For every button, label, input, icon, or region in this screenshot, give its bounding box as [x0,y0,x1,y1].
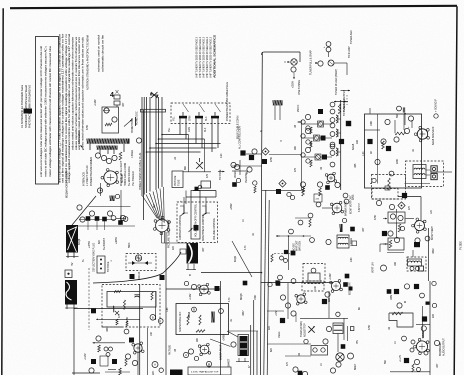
svg-text:22K: 22K [268,326,271,330]
notes column B [71,36,85,150]
sound wires [365,108,413,133]
snd if tube V12 [198,283,220,296]
svg-text:schematic circuit on Ite: schematic circuit on Ite [101,34,105,72]
bm bottom callouts [293,367,308,375]
yoke area parts [84,308,125,373]
audio out label [434,338,445,356]
plug P2 blade [195,112,203,122]
svg-text:meter to with tube DC voltages: meter to with tube DC voltages ground wi… [44,45,48,177]
svg-text:TV 2820: TV 2820 [460,241,463,250]
IF bottom tube [325,172,337,184]
svg-text:56K: 56K [384,360,387,364]
vert black sq2 [382,231,387,236]
bottom label 6dq6 [239,281,247,300]
controls dashed box [177,202,218,243]
wire plug drops [180,122,218,152]
mc trap box [188,367,231,375]
wire diag snd [210,339,231,347]
svg-text:6AW8A PIX IF: 6AW8A PIX IF [219,344,223,360]
sync callout e [289,229,294,234]
focus labels [130,271,165,280]
svg-text:ADDITIONAL SCHEMATICS: ADDITIONAL SCHEMATICS [213,35,217,78]
IF bottom callouts [300,182,340,188]
rectifier tube V13 [97,168,118,193]
controls top link [184,185,216,204]
vert callouts2 [388,226,420,243]
svg-text:47K: 47K [118,314,121,318]
svg-text:39K: 39K [294,146,297,150]
wire dotted agc [274,250,295,256]
phase det coil [340,218,347,232]
svg-text:6CM7 VERT: 6CM7 VERT [430,226,434,240]
svg-text:4: 4 [110,92,114,99]
IF stage 2 label [321,136,326,141]
svg-text:YEL: YEL [173,116,176,121]
br keystone2 [0,0,1,1]
cable junction cluster [150,92,159,98]
cable tie band [141,109,166,112]
svg-text:BAR GEN: BAR GEN [299,241,302,251]
focus spinner [135,255,141,261]
svg-text:6DQ6: 6DQ6 [78,238,81,245]
svg-text:6AU8 SOUND IF: 6AU8 SOUND IF [431,126,435,145]
svg-text:voltage applied maintained con: voltage applied maintained controls volt… [67,33,71,183]
svg-text:volt vacuum voltages tube ohm: volt vacuum voltages tube ohm measured s… [39,46,43,177]
svg-text:10K: 10K [310,142,313,146]
bottom row callouts [275,275,296,285]
sound tube label [431,98,438,145]
svg-text:6AU8: 6AU8 [351,143,355,150]
input coil L1 [273,100,283,120]
top dashed box bm [302,281,324,291]
left resistor [271,254,273,262]
snd box [176,304,229,335]
svg-text:1.8K: 1.8K [166,307,169,312]
svg-text:TUNER AGC: TUNER AGC [350,30,353,44]
IF stage 3 transformer [330,142,338,156]
IF top label [297,98,346,116]
IF stage 3 tube [315,154,321,160]
vert box2 [388,238,404,250]
svg-text:B+ BOOST: B+ BOOST [103,238,106,250]
svg-text:DEFLECTION YOKE PLUG: DEFLECTION YOKE PLUG [93,243,96,272]
rect label [120,174,124,183]
svg-text:POWER TRANSFORMER: POWER TRANSFORMER [89,157,93,186]
svg-text:4.5 MC TRAP ADJUST TOP: 4.5 MC TRAP ADJUST TOP [191,371,219,374]
cap stack C58 [114,90,120,107]
power resistor [119,152,122,160]
svg-text:TUNER RF AGC (SNAP): TUNER RF AGC (SNAP) [335,69,338,95]
svg-text:AUDIO OUTPUT: AUDIO OUTPUT [443,338,446,356]
audio out tube V15 [414,331,430,355]
ratio transformer 2 [300,312,354,340]
wire sync bus [276,235,311,237]
wire if input [334,101,348,103]
IF stage 1 tube [318,121,324,127]
snd tube V14 [198,343,211,356]
svg-text:TUBE: TUBE [178,179,181,186]
bl dashed enclosure [102,285,160,328]
br rail [429,281,431,375]
notes column A [58,33,72,183]
svg-text:470K: 470K [374,214,377,220]
focus dashed box [126,254,156,271]
IF stage 1 label [318,109,323,114]
flyback lead text [71,262,74,266]
svg-text:STANDARD NOTATION Sams Howard: STANDARD NOTATION Sams Howard [24,84,28,128]
svg-text:YEL TRACER: YEL TRACER [132,171,135,186]
svg-text:PICTURE TUBE SOCKET: PICTURE TUBE SOCKET [167,219,171,248]
vert left col [344,195,386,278]
component value labels [82,99,439,368]
wire long y272 [201,272,262,274]
svg-text:+250V: +250V [230,203,233,210]
focus diodes [128,261,152,265]
svg-text:VHF TUNER TV 2820 19 SEE PAGE: VHF TUNER TV 2820 19 SEE PAGE 2 [198,36,202,78]
sync sep black sq [325,185,330,190]
svg-text:270K: 270K [126,316,129,322]
IF bottom resistors [302,188,322,196]
svg-text:VOLUME CONTROL: VOLUME CONTROL [213,217,216,240]
svg-text:VERT LIN: VERT LIN [372,262,375,273]
right edge marks [460,241,463,250]
plug leader lines [183,104,221,112]
sound lower dashed [372,175,406,200]
svg-text:TUNER PULL & SNAP: TUNER PULL & SNAP [309,50,313,75]
svg-text:+245V: +245V [223,334,226,341]
snd if callouts [184,281,196,300]
svg-text:SOUND TAKE OFF: SOUND TAKE OFF [179,311,182,332]
vert black sq [402,193,407,198]
horiz osc box [102,107,119,133]
svg-text:2.2MEG: 2.2MEG [350,238,353,246]
svg-text:VHF TUNER TV 2820 19 SEE PAGE: VHF TUNER TV 2820 19 SEE PAGE 2 [202,36,206,78]
svg-text:3.3K: 3.3K [220,153,223,158]
vert diamond [398,202,405,209]
svg-text:16 AT 80 MA SEL RECT: 16 AT 80 MA SEL RECT [120,161,123,186]
svg-text:6CM7 VERT OSC: 6CM7 VERT OSC [350,195,353,214]
yoke lower wires [74,268,143,375]
power sec leads [90,144,124,154]
video rail black sq [232,155,301,187]
svg-text:L V RECT 117V AC: L V RECT 117V AC [85,165,89,186]
svg-text:+11.7V: +11.7V [399,355,402,362]
electrolytic box [227,331,258,367]
IF stage 2 transformer [330,123,338,137]
notes box outline [36,37,59,185]
wire tuner B+ horizontal [262,52,301,62]
svg-text:6W4GT: 6W4GT [228,358,231,367]
notes marks [86,35,90,90]
wire flyback diag [72,196,96,225]
snd callouts3 [159,349,212,373]
bl callouts2 [125,354,137,366]
svg-text:TO TUNER AGC: TO TUNER AGC [343,98,346,116]
wire crt down2 [165,232,167,375]
IF callout ladder [330,102,335,167]
notes box text [39,45,52,177]
svg-text:100K: 100K [370,120,373,126]
wire crt down1 [162,232,165,244]
spark gap G1 [183,135,211,172]
svg-text:82K: 82K [98,240,101,244]
svg-text:270K: 270K [270,156,273,162]
IF left wires [298,120,302,190]
page border top [10,6,457,8]
sound lower parts [372,171,394,190]
vert rail [398,197,429,282]
svg-text:GRN: GRN [189,115,192,121]
svg-text:B: B [152,315,154,319]
svg-text:2ND IF: 2ND IF [297,104,300,112]
ratio det transformer [406,161,444,187]
svg-text:FINE TUNING: FINE TUNING [298,80,301,95]
svg-text:3.9K: 3.9K [350,257,353,262]
sync sep grid box [314,194,322,202]
notes column C [97,34,105,72]
svg-text:PIX TUBE: PIX TUBE [169,345,172,355]
svg-text:A: A [185,353,187,357]
yoke core [65,280,78,309]
video text [234,125,248,183]
svg-text:A: A [154,363,156,367]
svg-text:+ SOUND IF: + SOUND IF [435,98,438,112]
crt bell [187,243,199,264]
power transformer core T3 [87,139,130,144]
svg-text:1MEG: 1MEG [278,331,281,338]
svg-text:47K: 47K [286,362,289,366]
phase det callout [326,239,331,244]
svg-text:HORIZ HOLD: HORIZ HOLD [130,118,134,133]
sound squares [367,139,391,151]
IF right rail [338,100,351,190]
svg-text:.0022: .0022 [432,248,435,254]
rail x264 [264,190,266,375]
wire sync plate [322,207,332,209]
wire horiz out [76,183,135,230]
bottom edge wire [72,372,130,373]
phase det transformer [337,235,349,248]
svg-text:+137V: +137V [84,353,87,360]
svg-text:560K: 560K [128,242,131,248]
audio wires [267,311,296,322]
wire bundle converge [143,187,165,223]
photofact black label [24,109,33,114]
bl bottom marks [93,328,172,375]
br callout [397,301,406,308]
vert osc callouts [376,200,403,220]
svg-text:47K: 47K [348,122,351,126]
svg-text:Co SCHEMATIC Inc STANDARD Sams: Co SCHEMATIC Inc STANDARD Sams [20,84,24,128]
svg-text:POWER TRANS PRI CABLE PLUG: POWER TRANS PRI CABLE PLUG [225,82,229,121]
svg-text:.0047: .0047 [242,310,245,316]
bl resistors top [114,285,156,375]
photofact text [20,84,32,128]
horiz hold pot [124,117,136,133]
svg-text:POWER TRANS PRI CABLE PLUG: POWER TRANS PRI CABLE PLUG [139,153,142,190]
svg-text:BLK: BLK [204,127,207,132]
sync sep callout a [316,202,321,207]
sound resistor h [395,132,406,135]
electrolytic can [240,336,248,356]
rail x268 [267,200,269,375]
svg-text:NOTATION STANDARD x PHOTOFACT: NOTATION STANDARD x PHOTOFACT SCHEMA [86,35,90,90]
IF stage 1 transformer [330,109,338,123]
svg-text:PIX: PIX [153,204,156,208]
br sq3 [399,355,420,365]
top band y190 [232,116,302,200]
br resistor [392,312,403,315]
am tube V7 [325,280,348,298]
am black sq [322,299,327,304]
crt base bracket [186,264,196,276]
bundle callout [136,138,141,143]
IF stage 1 resistor [310,127,312,134]
svg-text:4.7K: 4.7K [244,245,247,250]
controls black box [194,225,199,231]
svg-text:82K: 82K [270,348,273,352]
br bottom parts [412,364,421,372]
svg-text:INTERLOCK: INTERLOCK [82,172,86,186]
yoke plug [93,243,111,273]
agc small callouts [280,256,288,263]
vert black comp [414,242,420,247]
sound resistor v [382,141,385,149]
wire tuner left rail [260,52,262,375]
vert dashed remainder [372,189,398,200]
brightness pot [189,191,201,240]
horiz osc tube V10 [103,108,117,122]
br wire bottom [390,371,430,373]
svg-text:+255V: +255V [292,81,295,88]
svg-text:22K: 22K [172,246,175,250]
page border right [454,6,457,375]
bottom rails [251,300,257,375]
svg-text:BLK: BLK [205,116,208,121]
bl tube V11 [129,338,144,355]
wire sync down [288,236,290,270]
terminal box [201,181,211,188]
service switch callout [116,190,187,243]
bl circled A [152,362,158,368]
svg-text:VHF TUNER TV 2820 19 SEE PAGE: VHF TUNER TV 2820 19 SEE PAGE 2 [195,36,199,78]
sync note text [293,240,302,251]
tuning adj [300,321,315,337]
IF stage 2 resistor [310,141,312,148]
svg-text:68K: 68K [184,166,187,170]
quad callout [323,339,328,344]
svg-text:VHF TUNER TV 2820 19 SEE PAGE: VHF TUNER TV 2820 19 SEE PAGE 2 [205,36,209,78]
rect filament callouts [95,153,117,164]
wire y289 [166,288,221,290]
sound bottom wire [370,183,430,185]
video cluster callouts [231,149,257,172]
svg-text:ohms noted otherwise values an: ohms noted otherwise values and capacito… [80,36,84,150]
wire bundle verticals [142,97,162,196]
svg-text:CONTRAST CONTROL: CONTRAST CONTROL [179,214,182,240]
bm wires [267,291,347,356]
vert resistor 1 [398,224,401,232]
svg-text:TO IF AMP: TO IF AMP [348,46,351,58]
ratio det squares [431,166,437,180]
sync sep callout b [343,193,348,198]
sync sep tube V4 [330,201,347,216]
plug P3 blade [211,112,219,122]
svg-text:10K: 10K [314,286,317,290]
video wires [232,154,262,175]
svg-text:+119V: +119V [189,293,192,300]
svg-text:TO YOKE: TO YOKE [219,169,222,180]
IF stage 3 resistor [310,160,312,167]
vert osc boxes [388,212,405,223]
vert hold pot [202,204,216,241]
svg-text:B+ 140V SOURCE: B+ 140V SOURCE [128,166,131,186]
svg-text:12K: 12K [430,210,433,214]
power label [135,111,139,125]
junction diamond 1 [262,148,269,155]
svg-text:+475V: +475V [88,241,91,248]
svg-text:4.5V P-P: 4.5V P-P [358,203,361,212]
fine tuning tube V1A [284,59,297,79]
electrolytic bracket [231,342,249,362]
br top row [387,281,437,307]
video cluster squares [240,150,254,160]
svg-text:HV: HV [71,262,74,266]
sound top parts [397,106,406,114]
plug P1 blade [179,112,187,122]
svg-text:1.5MEG: 1.5MEG [131,150,134,158]
hold callout [311,268,316,273]
svg-text:ADJUST TOP: ADJUST TOP [304,323,307,337]
br left text [348,282,358,370]
svg-text:FOCUS: FOCUS [138,271,141,280]
IF stage 3 label [322,155,327,160]
wire crt anode [93,249,186,283]
sound box outline [365,114,422,188]
svg-text:6DQ6A HORIZ OUTPUT: 6DQ6A HORIZ OUTPUT [65,171,69,198]
page number 4 [110,92,114,99]
svg-text:meter voltage voltages voltmet: meter voltage voltages voltmeter with me… [48,45,52,177]
IF stage 2 callouts [301,128,311,144]
svg-text:VOLUME (ON-OFF) CONTROL: VOLUME (ON-OFF) CONTROL [195,203,198,237]
svg-text:220K: 220K [208,362,211,368]
snd box parts [158,307,223,332]
IF stage 3 wires [302,152,341,157]
bundle text labels [120,161,135,186]
snd label [219,344,223,360]
svg-text:HORIZ CABLE CONN: HORIZ CABLE CONN [124,163,127,186]
audio out pins [402,336,428,355]
fuse arrow [78,130,84,150]
bl small text [152,370,155,375]
vert tube V8 [412,218,434,241]
width coil box [65,270,72,278]
svg-text:INTERLOCK: INTERLOCK [78,130,81,144]
pilot callouts [330,344,345,373]
br sq2 [416,306,430,338]
svg-text:ALL CONTROLS 20%: ALL CONTROLS 20% [239,125,242,149]
svg-text:BRIGHTNESS CONTROL: BRIGHTNESS CONTROL [202,213,205,241]
hold inner box [308,273,320,283]
svg-text:1.2K: 1.2K [362,151,365,156]
bl dashed [102,326,122,328]
svg-text:VHF TUNER TV 2820 19 SEE PAGE: VHF TUNER TV 2820 19 SEE PAGE 2 [209,36,213,78]
svg-text:HORIZ OSC: HORIZ OSC [135,111,139,125]
svg-text:6DE7: 6DE7 [353,363,357,370]
svg-text:PHOTOFACT Inc 1960 STANDARD NO: PHOTOFACT Inc 1960 STANDARD NO [28,85,32,128]
IF stage 1 callouts [301,114,311,130]
audio tube V6 [261,283,334,320]
